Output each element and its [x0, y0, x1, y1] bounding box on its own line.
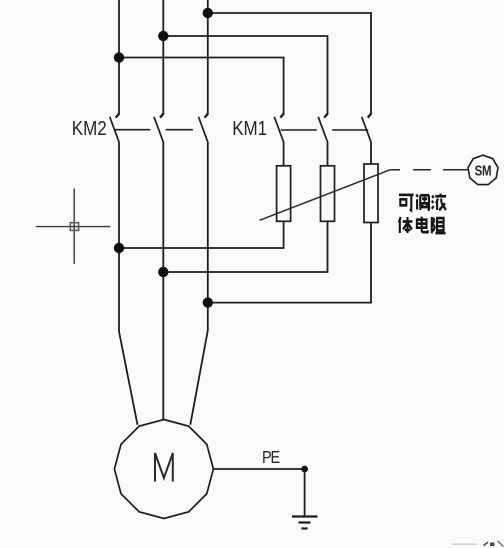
wire feed L1 to KM1 pole1 [119, 58, 284, 115]
node junction L2 top [158, 31, 168, 41]
sensor SM circle [468, 155, 498, 185]
leader line dashes to SM [390, 169, 468, 171]
wire KM2 pole2 to motor [162, 143, 164, 419]
contactor KM1 mechanical link [281, 129, 369, 131]
node junction L3 lower [203, 297, 213, 307]
wire phase L1 vertical [118, 0, 120, 114]
resistor R1 [277, 166, 291, 222]
wire feed L2 to KM1 pole2 [163, 36, 327, 114]
svg-text:PE: PE [262, 449, 280, 467]
label char 阻 [432, 217, 446, 233]
wire KM1 pole2 to resistor R2 [327, 143, 329, 166]
resistor R2 [321, 166, 335, 222]
wire motor to PE node [213, 468, 304, 470]
contactor KM1 pole 3 [362, 113, 372, 142]
wire KM2 pole1 to motor [119, 143, 138, 425]
wire KM1 pole1 to resistor R1 [283, 143, 285, 166]
svg-text:SM: SM [475, 162, 492, 179]
contactor KM2 pole 3 [199, 113, 209, 142]
node junction L1 top [114, 52, 124, 62]
wire phase L2 vertical [162, 0, 164, 114]
svg-text:KM1: KM1 [232, 117, 267, 140]
crosshair pickbox [70, 223, 78, 231]
node junction L3 top [203, 8, 213, 18]
wire resistor R2 to node L2 [163, 221, 327, 272]
leader line diagonal to resistors [260, 170, 391, 221]
contactor KM1 pole 2 [318, 113, 328, 142]
label char 可 [399, 195, 414, 211]
watermark bottom right [452, 541, 504, 547]
wire feed L3 to KM1 pole3 [208, 13, 371, 114]
contactor KM2 pole 1 [110, 113, 120, 142]
node junction L1 lower [114, 243, 124, 253]
contactor KM1 pole 1 [274, 113, 284, 142]
crosshair cursor horizontal [36, 226, 110, 228]
wire phase L3 vertical [207, 0, 209, 114]
ground symbol [292, 517, 318, 529]
label char 调 [416, 195, 429, 211]
motor M circle [114, 420, 213, 519]
wire KM2 pole3 to motor [190, 143, 208, 425]
node junction L2 lower [158, 267, 168, 277]
node PE junction [301, 466, 308, 473]
wire KM1 pole3 to resistor R3 [370, 143, 372, 164]
wire PE to ground [304, 469, 306, 516]
contactor KM2 pole 2 [154, 113, 164, 142]
crosshair cursor vertical [73, 189, 75, 264]
motor letter M [155, 453, 173, 482]
label char 电 [417, 217, 428, 233]
label char 体 [399, 217, 413, 233]
contactor KM2 mechanical link [115, 129, 193, 131]
wire resistor R3 to node L3 [208, 223, 371, 303]
resistor R3 [364, 164, 378, 223]
label char 液 [432, 194, 446, 211]
wire resistor R1 to node L1 [119, 221, 284, 248]
svg-text:KM2: KM2 [72, 117, 107, 140]
